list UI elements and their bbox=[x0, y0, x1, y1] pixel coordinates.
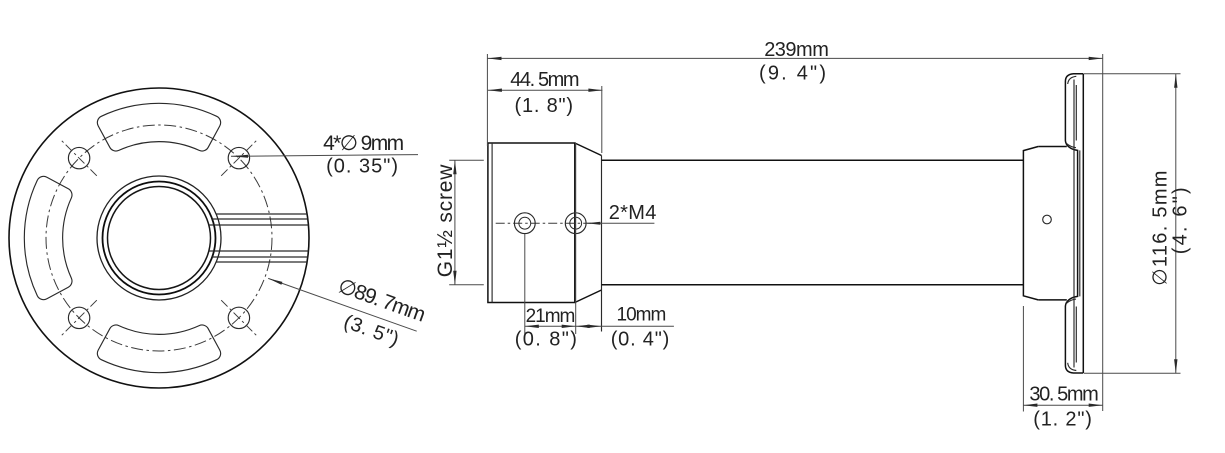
svg-text:4*∅ 9mm: 4*∅ 9mm bbox=[323, 132, 404, 155]
svg-text:(0. 4"): (0. 4") bbox=[611, 329, 670, 351]
svg-text:(9. 4"): (9. 4") bbox=[759, 63, 828, 85]
svg-text:44. 5mm: 44. 5mm bbox=[510, 69, 579, 91]
svg-text:(1. 2"): (1. 2") bbox=[1033, 409, 1092, 431]
svg-text:21mm: 21mm bbox=[526, 306, 575, 327]
svg-text:239mm: 239mm bbox=[764, 39, 828, 61]
svg-text:10mm: 10mm bbox=[617, 305, 666, 326]
svg-text:∅116. 5mm: ∅116. 5mm bbox=[1150, 169, 1172, 286]
svg-text:30. 5mm: 30. 5mm bbox=[1029, 384, 1098, 406]
svg-text:(4. 6"): (4. 6") bbox=[1170, 185, 1192, 254]
svg-text:(1. 8"): (1. 8") bbox=[515, 95, 574, 117]
svg-text:G1½ screw: G1½ screw bbox=[434, 164, 457, 277]
svg-text:2*M4: 2*M4 bbox=[609, 202, 657, 224]
svg-text:(0. 35"): (0. 35") bbox=[326, 156, 399, 178]
svg-text:(0. 8"): (0. 8") bbox=[515, 329, 579, 351]
